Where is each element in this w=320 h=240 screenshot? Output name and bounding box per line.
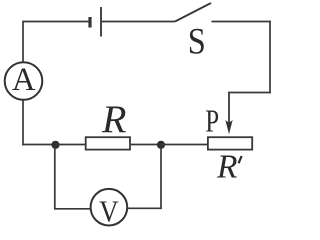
svg-text:R: R	[101, 97, 126, 140]
label R' prime mark	[239, 156, 242, 163]
wire: switch contact to top-right corner	[212, 21, 271, 23]
battery cell: short negative plate	[88, 17, 91, 28]
node: junction dot right	[157, 141, 165, 149]
node: junction dot left	[51, 141, 59, 149]
wire: right riser up to node 2	[160, 146, 162, 209]
svg-text:S: S	[188, 20, 206, 62]
wire: right vertical down from top-right corner	[269, 21, 271, 94]
wire: resistor R to node 2	[131, 144, 161, 146]
wire: bottom horizontal to voltmeter	[54, 208, 91, 210]
ammeter A circle	[5, 62, 43, 100]
wire: battery to switch pivot	[102, 21, 175, 23]
wire: voltmeter to right riser	[128, 207, 162, 209]
slider arrow head (wiper tip)	[225, 120, 232, 134]
wire: step horizontal toward slider arrow	[229, 92, 271, 94]
svg-text:P: P	[205, 105, 219, 140]
resistor R box	[86, 137, 130, 149]
rheostat R' box	[208, 137, 252, 149]
voltmeter V circle	[91, 189, 128, 226]
slider arrow shaft of rheostat wiper P	[228, 92, 230, 125]
wire: node 2 to rheostat R'	[161, 144, 207, 146]
svg-text:V: V	[99, 195, 118, 229]
svg-text:R: R	[216, 149, 237, 186]
switch S: open blade	[175, 3, 211, 22]
battery cell: long positive plate	[100, 7, 102, 37]
wire: ammeter down to bottom-left corner	[22, 100, 24, 146]
wire: top horizontal from left corner to battery	[23, 21, 89, 23]
svg-text:A: A	[12, 62, 36, 98]
wire: node 1 down for voltmeter branch	[54, 147, 56, 210]
wire: bottom-left horizontal to node 1	[22, 144, 55, 146]
wire: left vertical from corner down to ammeter	[22, 21, 24, 62]
wire: node 1 to resistor R	[56, 144, 86, 146]
